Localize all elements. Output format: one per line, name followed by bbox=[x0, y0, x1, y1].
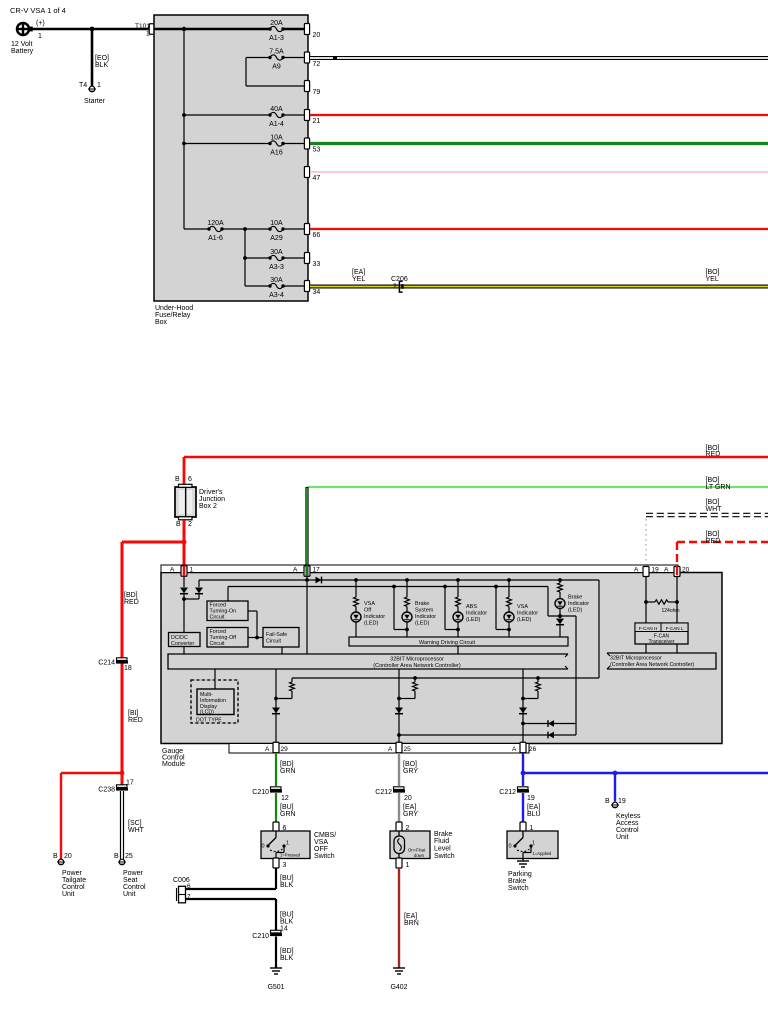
svg-text:LT GRN: LT GRN bbox=[706, 484, 731, 491]
svg-text:Access: Access bbox=[616, 820, 639, 827]
svg-text:BLK: BLK bbox=[280, 919, 294, 926]
svg-text:C212: C212 bbox=[375, 789, 392, 796]
Warning Driving Circuit box bbox=[349, 637, 568, 646]
wire A25 internal bbox=[398, 669, 400, 743]
node A25 diode line bbox=[397, 733, 401, 737]
svg-text:CMBS/: CMBS/ bbox=[314, 832, 336, 839]
svg-text:A: A bbox=[293, 567, 298, 574]
svg-text:30A: 30A bbox=[270, 277, 283, 284]
diode D3 after A17 bbox=[316, 577, 322, 584]
svg-text:F-CAN H: F-CAN H bbox=[639, 626, 658, 631]
Fail-Safe Circuit bbox=[263, 628, 299, 648]
wire fuse box main bus bbox=[154, 28, 270, 30]
battery B1 12 Volt bbox=[11, 20, 45, 55]
svg-text:BRN: BRN bbox=[404, 920, 419, 927]
svg-text:A: A bbox=[265, 746, 270, 753]
svg-text:[EA]: [EA] bbox=[527, 804, 540, 811]
wire RED from pin 66 bbox=[310, 228, 768, 230]
svg-text:Keyless: Keyless bbox=[616, 813, 641, 820]
svg-text:19: 19 bbox=[618, 798, 626, 805]
svg-text:T101: T101 bbox=[135, 23, 150, 30]
svg-text:DOT TYPE: DOT TYPE bbox=[196, 717, 222, 723]
wire BLK C006 back to C210 bbox=[186, 898, 276, 900]
svg-text:WHT: WHT bbox=[128, 827, 145, 834]
svg-text:[EO]: [EO] bbox=[95, 55, 109, 62]
svg-text:Indicator: Indicator bbox=[568, 601, 589, 607]
diode D4 below brake indicator bbox=[556, 619, 564, 625]
svg-text:1: 1 bbox=[97, 82, 101, 89]
diode D1 at A1 bbox=[180, 588, 188, 594]
pin 72 bbox=[304, 52, 309, 63]
svg-text:VSA: VSA bbox=[314, 839, 328, 846]
VSA Indicator LED bbox=[507, 578, 511, 582]
wire WHT from pin 72 bbox=[310, 56, 768, 60]
Brake Indicator LED chain bbox=[558, 578, 562, 582]
svg-text:[BU]: [BU] bbox=[280, 804, 294, 811]
wire internal line2 from Forced Turning-On bbox=[228, 586, 548, 588]
ground G501 bbox=[270, 967, 282, 969]
pin 21 bbox=[304, 110, 309, 121]
wire GRN to switch bbox=[275, 793, 277, 822]
wire Forced-On to Fail-Safe bbox=[248, 610, 257, 612]
svg-text:0: 0 bbox=[508, 844, 511, 850]
svg-text:G501: G501 bbox=[267, 984, 284, 991]
svg-text:B: B bbox=[53, 853, 58, 860]
svg-text:17: 17 bbox=[313, 567, 321, 574]
wire transceiver to microprocessor bbox=[645, 644, 647, 653]
svg-text:25: 25 bbox=[404, 746, 412, 753]
svg-text:20: 20 bbox=[313, 32, 321, 39]
svg-text:F-CAN L: F-CAN L bbox=[666, 626, 684, 631]
svg-text:Starter: Starter bbox=[84, 98, 106, 105]
svg-text:Indicator: Indicator bbox=[466, 611, 487, 617]
svg-text:Unit: Unit bbox=[62, 891, 75, 898]
node keyless branch bbox=[613, 771, 618, 776]
svg-text:WHT: WHT bbox=[706, 506, 723, 513]
wire RED to power tailgate bbox=[61, 772, 122, 774]
svg-text:A1-3: A1-3 bbox=[269, 35, 284, 42]
svg-text:Unit: Unit bbox=[616, 834, 629, 841]
svg-text:(LCD): (LCD) bbox=[200, 710, 214, 716]
svg-text:53: 53 bbox=[313, 147, 321, 154]
svg-text:20: 20 bbox=[682, 567, 690, 574]
svg-text:Level: Level bbox=[434, 846, 451, 853]
svg-text:Power: Power bbox=[62, 870, 83, 877]
node A17 junction on line1 bbox=[305, 578, 309, 582]
svg-text:C238: C238 bbox=[98, 787, 115, 794]
svg-text:down: down bbox=[414, 853, 425, 858]
ABS Indicator LED bbox=[456, 578, 460, 582]
svg-text:[BU]: [BU] bbox=[280, 912, 294, 919]
svg-text:A: A bbox=[170, 567, 175, 574]
svg-text:(LED): (LED) bbox=[364, 621, 379, 627]
svg-text:[EA]: [EA] bbox=[403, 804, 416, 811]
svg-text:RED: RED bbox=[128, 717, 143, 724]
diode D6 on A25 bbox=[395, 708, 403, 714]
ground of parking brake switch bbox=[522, 859, 524, 862]
resistor R4 124ohm CAN termination bbox=[644, 600, 648, 604]
svg-text:40A: 40A bbox=[270, 106, 283, 113]
svg-text:[BD]: [BD] bbox=[280, 948, 294, 955]
svg-text:Fail-Safe: Fail-Safe bbox=[266, 632, 287, 638]
fuse 10A A29 bbox=[245, 228, 270, 230]
pin 66 bbox=[304, 224, 309, 235]
node 120A output junction bbox=[243, 227, 247, 231]
svg-text:BLK: BLK bbox=[280, 882, 294, 889]
node tailgate branch bbox=[120, 771, 125, 776]
wire battery positive to fuse box bbox=[32, 28, 154, 31]
Driver's Junction Box 2 bbox=[175, 476, 225, 528]
pin 33 bbox=[304, 253, 309, 264]
fuse 30A A3-4 bbox=[245, 285, 270, 287]
diode D8 on A26 bbox=[519, 708, 527, 714]
svg-text:GRN: GRN bbox=[280, 811, 296, 818]
svg-text:2: 2 bbox=[393, 284, 397, 291]
svg-text:Box: Box bbox=[155, 319, 168, 326]
svg-text:2: 2 bbox=[188, 521, 192, 528]
pin 34 bbox=[304, 281, 309, 292]
fuse 20A A1-3 bbox=[268, 27, 271, 30]
wire RED feed to junction box and gauge module bbox=[184, 456, 768, 459]
svg-text:21: 21 bbox=[313, 118, 321, 125]
svg-text:B: B bbox=[114, 853, 119, 860]
svg-text:[SC]: [SC] bbox=[128, 820, 142, 827]
wire bypass to brake indicator bbox=[547, 587, 549, 617]
wire branch to 30A fuses bbox=[244, 229, 246, 286]
node on WHT wire bbox=[333, 56, 337, 60]
svg-text:ABS: ABS bbox=[466, 604, 477, 610]
node bus junction bbox=[182, 27, 186, 31]
pin 1 of brake fluid level switch bbox=[396, 858, 402, 868]
svg-text:RED: RED bbox=[124, 599, 139, 606]
F-CAN Transceiver bbox=[645, 602, 647, 623]
svg-text:20A: 20A bbox=[270, 20, 283, 27]
svg-text:A16: A16 bbox=[270, 150, 283, 157]
svg-text:Circuit: Circuit bbox=[210, 615, 226, 621]
svg-text:A1-6: A1-6 bbox=[208, 235, 223, 242]
wire BLK to ground bbox=[275, 937, 277, 969]
svg-text:Brake: Brake bbox=[415, 601, 429, 607]
svg-text:Switch: Switch bbox=[508, 885, 529, 892]
svg-text:20: 20 bbox=[64, 853, 72, 860]
Brake Fluid Level Switch bbox=[390, 831, 430, 859]
svg-text:Brake: Brake bbox=[434, 831, 452, 838]
svg-text:17: 17 bbox=[126, 780, 134, 787]
wire GRN down to pin A17 bbox=[305, 487, 308, 567]
wire A20 to CAN resistor bbox=[676, 576, 678, 602]
svg-text:32BIT Microprocessor: 32BIT Microprocessor bbox=[610, 656, 662, 662]
wire RED branch left bbox=[122, 541, 184, 544]
wire Fail-Safe to microprocessor bbox=[281, 647, 283, 654]
Under-Hood Fuse/Relay Box bbox=[154, 15, 308, 301]
svg-text:7.5A: 7.5A bbox=[269, 49, 284, 56]
node battery-starter junction bbox=[90, 27, 95, 32]
module top pin band bbox=[161, 565, 678, 573]
pin 79 bbox=[304, 81, 309, 92]
svg-text:26: 26 bbox=[529, 746, 537, 753]
wire RED from pin 21 bbox=[310, 114, 768, 116]
svg-text:[BD]: [BD] bbox=[280, 761, 294, 768]
svg-text:(LED): (LED) bbox=[568, 608, 583, 614]
diode D9 bbox=[548, 720, 554, 727]
svg-text:1=Pressed: 1=Pressed bbox=[280, 853, 301, 858]
svg-text:1: 1 bbox=[406, 862, 410, 869]
svg-text:Converter: Converter bbox=[171, 641, 194, 647]
wire BLU to keyless access control unit bbox=[614, 773, 616, 802]
resistor R3 pull-up A26 bbox=[537, 678, 539, 682]
wire bypass to brake system indicator bbox=[393, 587, 395, 630]
svg-text:BLU: BLU bbox=[527, 811, 541, 818]
svg-text:Junction: Junction bbox=[199, 496, 225, 503]
svg-text:(+): (+) bbox=[36, 20, 45, 27]
wire YEL from pin 34 bbox=[310, 285, 768, 289]
svg-text:System: System bbox=[415, 608, 434, 614]
pin 20 bbox=[304, 24, 309, 35]
svg-text:[BU]: [BU] bbox=[280, 875, 294, 882]
fuse 40A A1-4 bbox=[184, 114, 270, 116]
wire A25 to brake drive with diode bbox=[399, 734, 576, 736]
svg-text:A3-3: A3-3 bbox=[269, 264, 284, 271]
svg-text:Power: Power bbox=[123, 870, 144, 877]
svg-text:12 Volt: 12 Volt bbox=[11, 41, 32, 48]
svg-text:GRN: GRN bbox=[280, 768, 296, 775]
svg-text:19: 19 bbox=[527, 795, 535, 802]
svg-text:VSA: VSA bbox=[517, 604, 528, 610]
svg-text:Under-Hood: Under-Hood bbox=[155, 305, 193, 312]
svg-text:Brake: Brake bbox=[568, 595, 582, 601]
wire BRN to ground bbox=[398, 868, 400, 968]
svg-text:T4: T4 bbox=[79, 82, 87, 89]
svg-text:VSA: VSA bbox=[364, 601, 375, 607]
pin 1 of parking brake switch bbox=[520, 822, 526, 832]
fuse 30A A3-3 bbox=[245, 257, 270, 259]
resistor R1 pull-up A29 bbox=[291, 678, 293, 682]
svg-text:29: 29 bbox=[281, 746, 289, 753]
svg-text:6: 6 bbox=[187, 883, 191, 890]
ground G402 bbox=[393, 967, 405, 969]
pin 2 of brake fluid level switch bbox=[396, 822, 402, 832]
svg-text:[EA]: [EA] bbox=[404, 913, 417, 920]
svg-text:B: B bbox=[605, 798, 610, 805]
svg-text:GRY: GRY bbox=[403, 811, 418, 818]
svg-text:C212: C212 bbox=[499, 789, 516, 796]
wire bypass to ABS indicator bbox=[444, 587, 446, 630]
node red branch junction bbox=[182, 540, 187, 545]
Parking Brake Switch bbox=[507, 831, 558, 859]
svg-text:Indicator: Indicator bbox=[364, 614, 385, 620]
pin 6 of CMBS switch bbox=[273, 822, 279, 832]
diode D5 on A29 bbox=[272, 708, 280, 714]
svg-text:YEL: YEL bbox=[706, 276, 719, 283]
VSA Off Indicator LED bbox=[354, 578, 358, 582]
wire internal supply line1 bbox=[199, 579, 599, 581]
svg-text:A: A bbox=[664, 567, 669, 574]
svg-text:A: A bbox=[388, 746, 393, 753]
svg-text:A: A bbox=[634, 567, 639, 574]
Forced Turning-Off Circuit bbox=[207, 628, 248, 648]
microprocessor U1 box right part bbox=[607, 653, 716, 669]
svg-text:[BO]: [BO] bbox=[706, 531, 720, 538]
svg-text:Battery: Battery bbox=[11, 48, 34, 55]
svg-text:[BD]: [BD] bbox=[124, 592, 138, 599]
wire PNK from pin 47 bbox=[310, 171, 768, 173]
wire A19 to CAN resistor bbox=[645, 576, 647, 602]
svg-text:Indicator: Indicator bbox=[517, 611, 538, 617]
svg-text:19: 19 bbox=[652, 567, 660, 574]
wire A29 internal bbox=[275, 669, 277, 743]
svg-text:YEL: YEL bbox=[352, 276, 365, 283]
wire LT GRN feed bbox=[307, 486, 768, 488]
svg-text:BLK: BLK bbox=[95, 62, 109, 69]
svg-text:120A: 120A bbox=[207, 220, 224, 227]
svg-text:Fluid: Fluid bbox=[434, 838, 449, 845]
wire WHT to power seat bbox=[120, 791, 124, 859]
wire RED dashed to pin A20 bbox=[677, 541, 768, 543]
svg-text:B: B bbox=[176, 521, 181, 528]
svg-text:Switch: Switch bbox=[434, 853, 455, 860]
svg-text:Control: Control bbox=[616, 827, 639, 834]
svg-text:Control: Control bbox=[62, 884, 85, 891]
wire A26 to brake drive with diode bbox=[523, 723, 576, 725]
pin 3 of CMBS switch bbox=[273, 858, 279, 868]
svg-text:Indicator: Indicator bbox=[415, 614, 436, 620]
wire brake indicator drive line bbox=[575, 616, 577, 724]
diode D2 bbox=[195, 588, 203, 594]
svg-text:C210: C210 bbox=[252, 789, 269, 796]
svg-text:G402: G402 bbox=[390, 984, 407, 991]
svg-text:1: 1 bbox=[286, 841, 289, 847]
svg-text:A1-4: A1-4 bbox=[269, 121, 284, 128]
CMBS/VSA OFF Switch bbox=[261, 831, 310, 859]
svg-text:(LED): (LED) bbox=[466, 617, 481, 623]
svg-text:[BO]: [BO] bbox=[706, 499, 720, 506]
svg-text:6: 6 bbox=[188, 476, 192, 483]
wire A26 internal bbox=[522, 669, 524, 743]
wire BLK switch to C006 bbox=[275, 868, 277, 889]
wire A17 vertical to microprocessor bbox=[306, 576, 308, 654]
svg-text:30A: 30A bbox=[270, 249, 283, 256]
svg-text:18: 18 bbox=[124, 665, 132, 672]
svg-text:10A: 10A bbox=[270, 220, 283, 227]
module bottom pin band bbox=[229, 744, 529, 754]
svg-text:Unit: Unit bbox=[123, 891, 136, 898]
resistor R2 pull-up A25 bbox=[414, 678, 416, 682]
svg-text:1: 1 bbox=[190, 567, 194, 574]
svg-text:GRY: GRY bbox=[403, 768, 418, 775]
wire BLU from pin A26 bbox=[522, 753, 524, 773]
svg-text:34: 34 bbox=[313, 289, 321, 296]
svg-text:Circuit: Circuit bbox=[210, 641, 226, 647]
Brake System Indicator LED bbox=[405, 578, 409, 582]
svg-text:A3-4: A3-4 bbox=[269, 292, 284, 299]
svg-text:Module: Module bbox=[162, 761, 185, 768]
svg-text:Tailgate: Tailgate bbox=[62, 877, 86, 884]
svg-text:1: 1 bbox=[532, 841, 535, 847]
svg-text:BLK: BLK bbox=[280, 955, 294, 962]
svg-text:20: 20 bbox=[404, 795, 412, 802]
svg-text:79: 79 bbox=[313, 89, 321, 96]
wire WHT dashed CAN line bbox=[646, 513, 768, 518]
svg-text:Warning Driving Circuit: Warning Driving Circuit bbox=[419, 640, 476, 646]
wire stub RED dashed through pin A20 bbox=[676, 566, 678, 575]
DC/DC Converter bbox=[169, 633, 201, 647]
wire to starter bbox=[91, 29, 94, 86]
wire vertical bus bbox=[183, 29, 185, 229]
Forced Turning-On Circuit bbox=[207, 601, 248, 621]
diode D7 bbox=[548, 732, 554, 739]
svg-text:(LED): (LED) bbox=[415, 621, 430, 627]
svg-text:Transceiver: Transceiver bbox=[649, 639, 675, 645]
wire warning circuit to microprocessor bbox=[457, 646, 459, 654]
pin 47 bbox=[304, 167, 309, 178]
svg-text:B: B bbox=[175, 476, 180, 483]
wire A1 internal bbox=[183, 576, 185, 587]
svg-text:[BO]: [BO] bbox=[706, 477, 720, 484]
svg-text:[BO]: [BO] bbox=[706, 269, 720, 276]
svg-text:Off: Off bbox=[364, 608, 372, 614]
svg-text:25: 25 bbox=[125, 853, 133, 860]
svg-text:Brake: Brake bbox=[508, 878, 526, 885]
svg-text:Seat: Seat bbox=[123, 877, 137, 884]
wire dotted gray to pin A19 bbox=[645, 519, 647, 566]
svg-text:On=Float: On=Float bbox=[408, 848, 426, 853]
svg-text:RED: RED bbox=[706, 538, 721, 545]
svg-text:Fuse/Relay: Fuse/Relay bbox=[155, 312, 191, 319]
svg-text:RED: RED bbox=[706, 451, 721, 458]
fuse 120A A1-6 bbox=[184, 228, 209, 230]
wire BLU bus to right bbox=[523, 772, 768, 774]
Gauge Control Module box bbox=[161, 573, 722, 744]
svg-text:C214: C214 bbox=[98, 660, 115, 667]
svg-text:3: 3 bbox=[283, 862, 287, 869]
fuse 7.5A A9 bbox=[246, 57, 270, 59]
svg-text:A9: A9 bbox=[272, 64, 281, 71]
wire GRN from pin A29 bbox=[275, 753, 277, 786]
svg-text:[BI]: [BI] bbox=[128, 710, 139, 717]
svg-text:C210: C210 bbox=[252, 933, 269, 940]
svg-text:Control: Control bbox=[123, 884, 146, 891]
svg-text:Parking: Parking bbox=[508, 871, 532, 878]
wire line1 wrap to pull-up rail bbox=[598, 580, 600, 678]
microprocessor U1 box left part bbox=[168, 654, 568, 669]
wire stub RED through pin A1 bbox=[183, 566, 186, 577]
pin 53 bbox=[304, 138, 309, 149]
svg-text:A: A bbox=[512, 746, 517, 753]
wire GRY from pin A25 bbox=[398, 753, 400, 786]
svg-text:47: 47 bbox=[313, 175, 321, 182]
svg-text:(Controller Area Network Contr: (Controller Area Network Controller) bbox=[610, 662, 694, 668]
svg-text:Box 2: Box 2 bbox=[199, 503, 217, 510]
svg-text:1=Applied: 1=Applied bbox=[533, 851, 552, 856]
svg-text:CR-V VSA 1 of 4: CR-V VSA 1 of 4 bbox=[10, 6, 66, 15]
svg-text:OFF: OFF bbox=[314, 846, 328, 853]
svg-text:Circuit: Circuit bbox=[266, 639, 282, 645]
svg-text:1: 1 bbox=[38, 33, 42, 40]
wire A9 loop to pin 79 bbox=[245, 58, 247, 87]
svg-text:33: 33 bbox=[313, 261, 321, 268]
svg-text:A29: A29 bbox=[270, 235, 283, 242]
svg-text:(Controller Area Network Contr: (Controller Area Network Controller) bbox=[373, 663, 461, 669]
wire stub GRN through pin A17 bbox=[306, 566, 309, 577]
svg-text:(LED): (LED) bbox=[517, 617, 532, 623]
svg-text:[EA]: [EA] bbox=[352, 269, 365, 276]
svg-text:Switch: Switch bbox=[314, 853, 335, 860]
fuse 10A A16 bbox=[184, 143, 270, 145]
svg-text:0: 0 bbox=[261, 844, 264, 850]
svg-text:[BO]: [BO] bbox=[403, 761, 417, 768]
Multi-Information Display LCD bbox=[214, 669, 216, 689]
wire GRN from pin 53 bbox=[310, 142, 768, 145]
